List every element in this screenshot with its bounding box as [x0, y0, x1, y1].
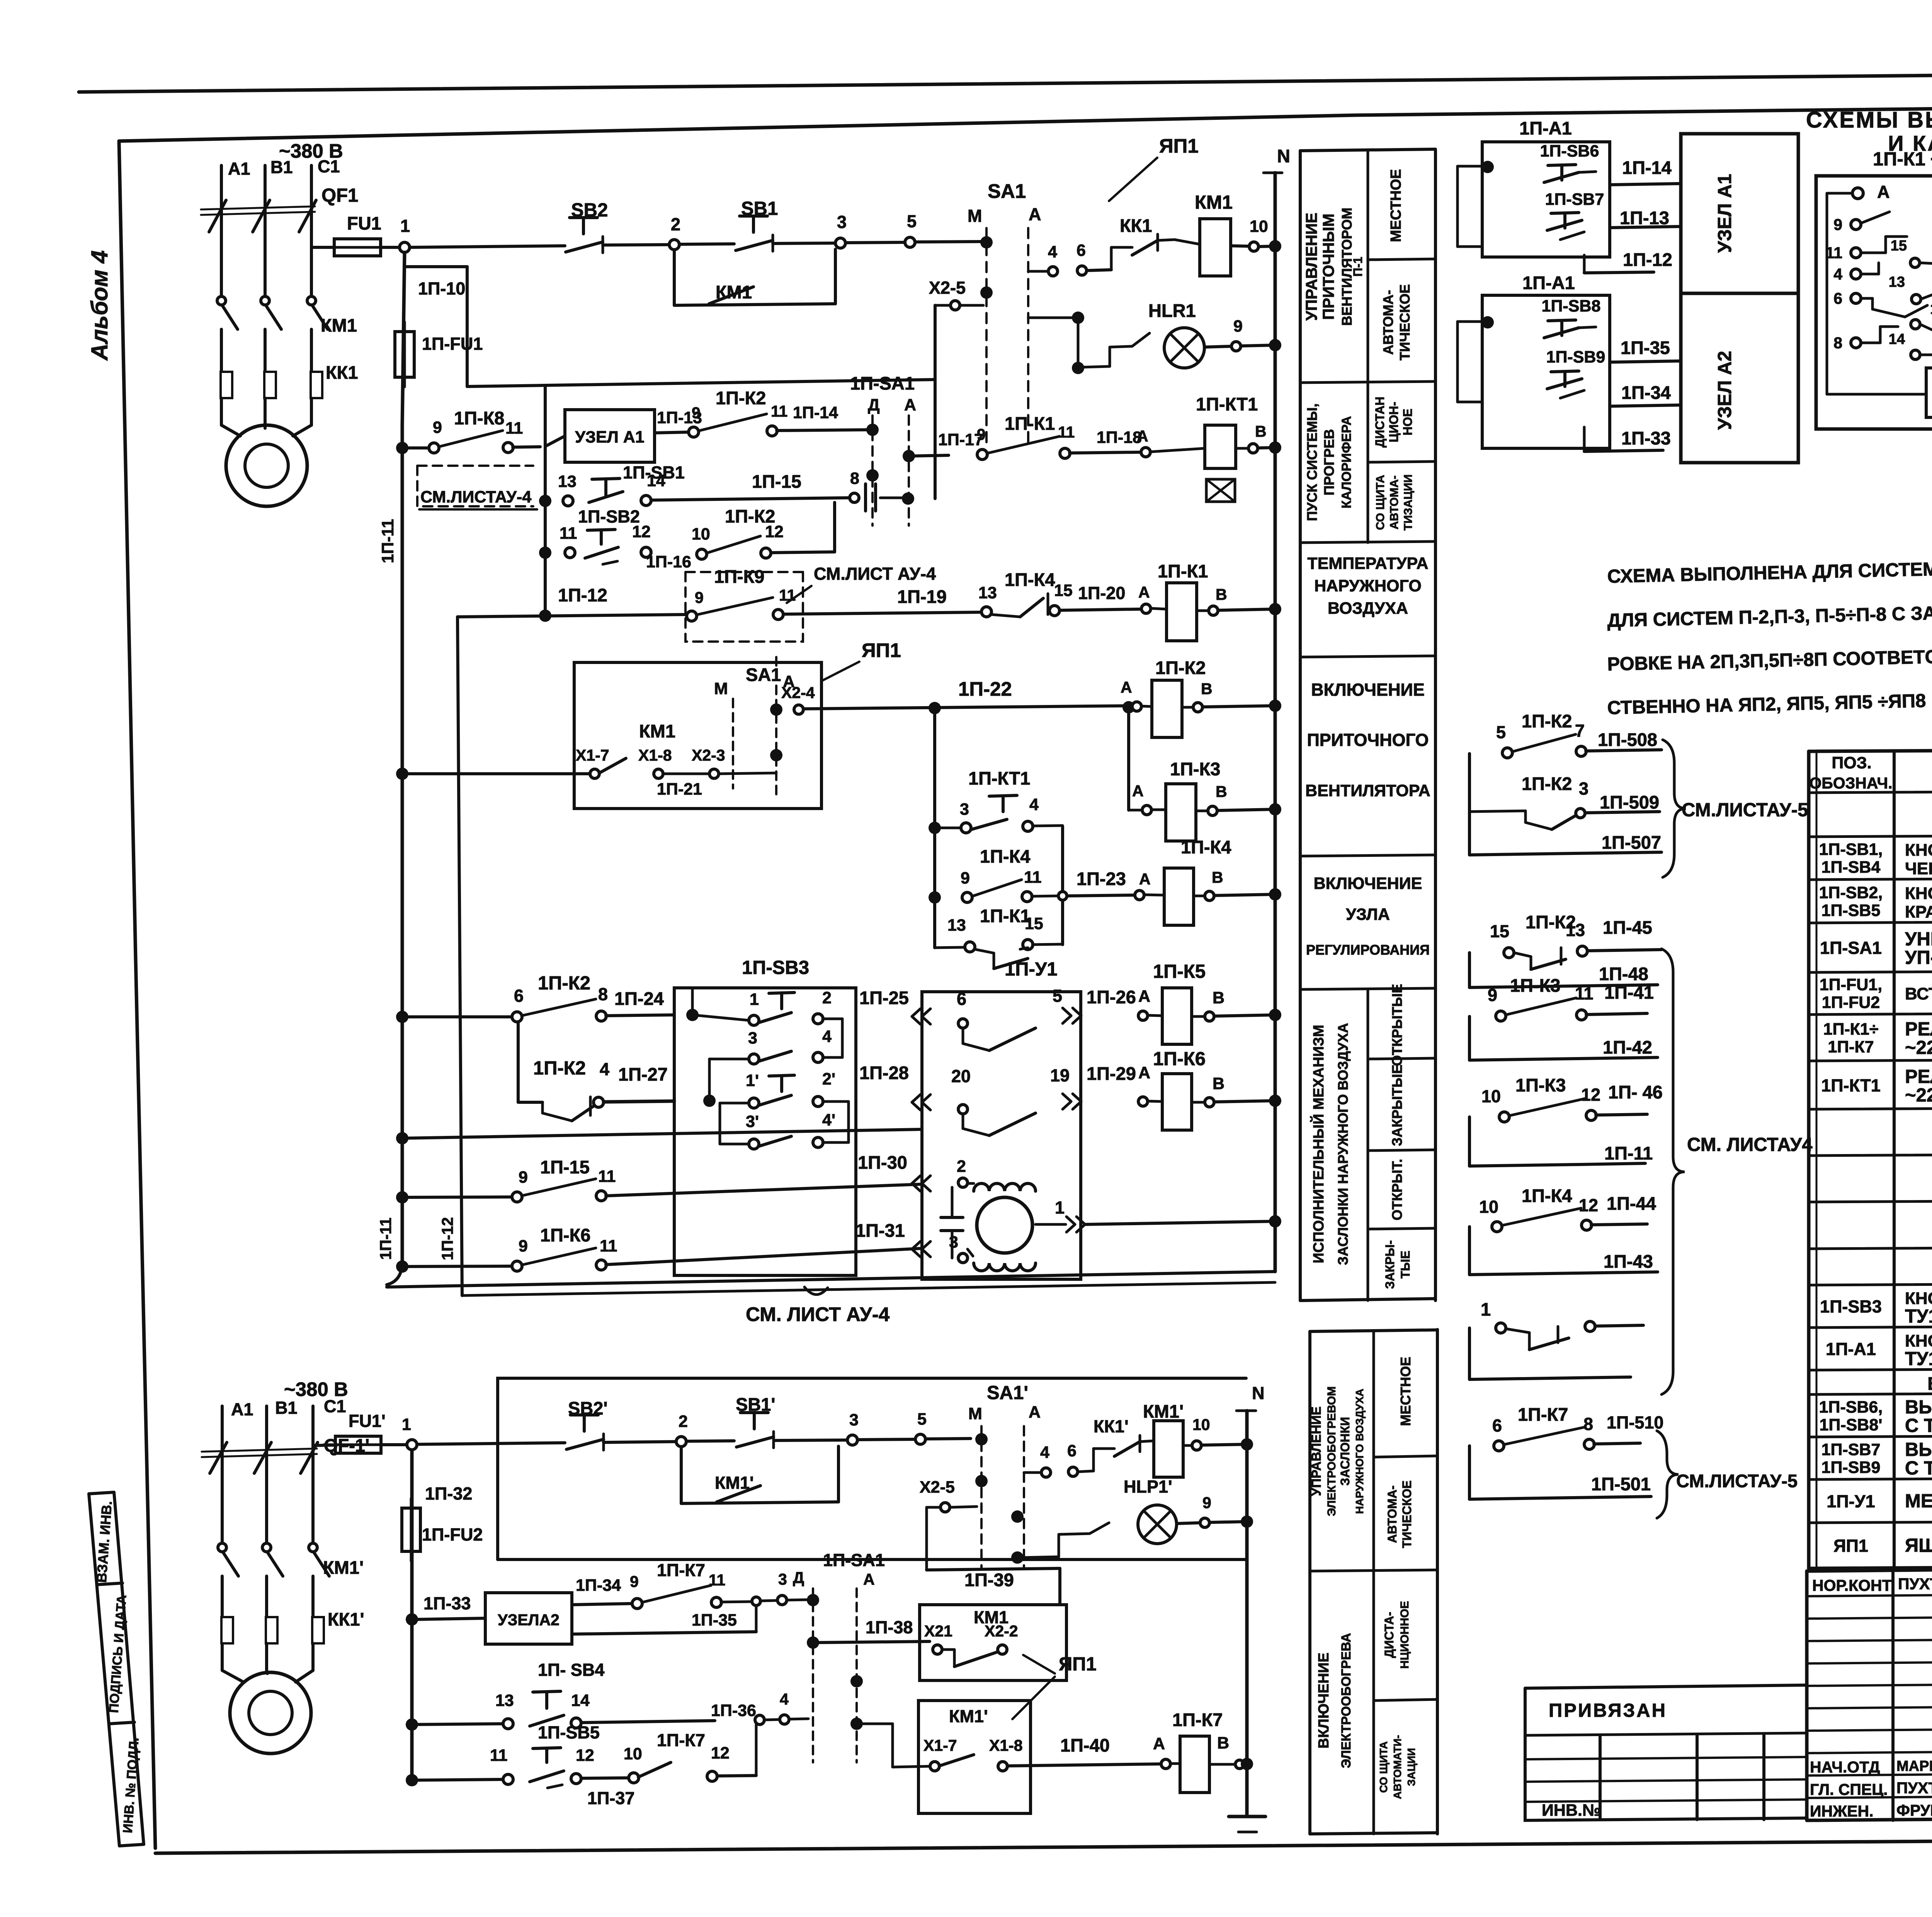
- phase leads: [220, 165, 223, 298]
- svg-text:FU1: FU1: [347, 213, 381, 233]
- svg-text:1П-К7: 1П-К7: [1172, 1709, 1223, 1730]
- svg-text:10: 10: [1481, 1086, 1501, 1106]
- svg-text:6: 6: [957, 989, 966, 1009]
- svg-text:УПРАВЛЕНИЕ: УПРАВЛЕНИЕ: [1309, 1406, 1324, 1496]
- svg-text:ОТКРЫТЫЕ: ОТКРЫТЫЕ: [1389, 984, 1405, 1066]
- inductor winding top: [974, 1183, 1036, 1191]
- svg-text:1П-33: 1П-33: [423, 1594, 471, 1613]
- svg-text:РОВКЕ НА 2П,3П,5П÷8П СООТВЕТСТ: РОВКЕ НА 2П,3П,5П÷8П СООТВЕТСТВЕННО, А Т…: [1607, 639, 1932, 675]
- svg-text:А: А: [1877, 182, 1890, 202]
- contact 1P-KT1 NO row: [929, 822, 941, 834]
- privyazan box bottom-left: [1525, 1688, 1807, 1820]
- svg-text:1П-SВ6: 1П-SВ6: [1540, 142, 1599, 160]
- svg-text:УНИВЕРСАЛЬНЫЙ ПЕРЕКЛЮЧАТЕЛЬ: УНИВЕРСАЛЬНЫЙ ПЕРЕКЛЮЧАТЕЛЬ: [1905, 928, 1932, 950]
- row KT1 coil: wire 1P-17: [909, 455, 949, 456]
- svg-text:АВТОМАТИ-: АВТОМАТИ-: [1391, 1735, 1403, 1799]
- terminal bars: [864, 484, 867, 511]
- svg-text:12: 12: [632, 523, 651, 541]
- svg-text:1П-27: 1П-27: [618, 1064, 668, 1084]
- svg-text:КМ1: КМ1: [1195, 192, 1233, 213]
- svg-text:ВЫКЛЮЧАТЕЛЬ КНОПОЧНЫЙ ТИПА: ВЫКЛЮЧАТЕЛЬ КНОПОЧНЫЙ ТИПА КЕ-011: [1905, 1439, 1932, 1460]
- breaker QF-1': [202, 1449, 317, 1452]
- svg-text:X1-8: X1-8: [989, 1737, 1023, 1754]
- svg-text:4': 4': [822, 1111, 835, 1129]
- svg-text:КНОПОЧНЫЙ ПОСТ УПРАВЛЕНИЯ ПК: КНОПОЧНЫЙ ПОСТ УПРАВЛЕНИЯ ПКЕ-212-2УЗ: [1905, 1288, 1932, 1308]
- svg-text:1: 1: [402, 1415, 411, 1434]
- box KM1 with X21 X2-2: [920, 1605, 1066, 1680]
- parts list table frame: [1809, 747, 1932, 751]
- svg-text:1П-43: 1П-43: [1604, 1251, 1653, 1272]
- svg-text:X1-7: X1-7: [576, 746, 609, 764]
- svg-text:1П-КТ1: 1П-КТ1: [1196, 394, 1258, 414]
- svg-text:1П-26: 1П-26: [1087, 987, 1136, 1007]
- svg-text:9: 9: [1202, 1494, 1211, 1512]
- svg-text:11: 11: [505, 419, 523, 438]
- svg-text:УПРАВЛЕНИЕ: УПРАВЛЕНИЕ: [1303, 213, 1320, 320]
- svg-text:X2-5: X2-5: [929, 278, 966, 298]
- svg-text:А1: А1: [231, 1399, 253, 1419]
- wire 1P-507: [1575, 852, 1662, 853]
- wire 1P-38 row: [857, 1642, 889, 1643]
- svg-text:С1: С1: [318, 157, 340, 176]
- svg-text:14: 14: [571, 1691, 590, 1710]
- svg-text:1П-15: 1П-15: [540, 1157, 590, 1177]
- svg-text:1П-16: 1П-16: [646, 553, 691, 571]
- svg-text:С ТОЛКАТЕЛЕМ КРАСНОГО ЦВЕТА: С ТОЛКАТЕЛЕМ КРАСНОГО ЦВЕТА, исп. 3: [1905, 1458, 1932, 1479]
- wire 1P-18: [1070, 452, 1140, 453]
- inductor winding bottom: [974, 1263, 1036, 1271]
- wire to SB1: [679, 244, 734, 244]
- svg-text:1П-К3: 1П-К3: [1510, 975, 1560, 996]
- KM1 holding contact branch: [673, 250, 676, 305]
- svg-text:НАЧ.ОТД: НАЧ.ОТД: [1810, 1758, 1880, 1776]
- svg-text:1П-К2: 1П-К2: [1155, 657, 1206, 678]
- svg-text:1П-К2: 1П-К2: [716, 388, 766, 408]
- svg-text:1П-К7: 1П-К7: [657, 1730, 705, 1750]
- svg-text:1П-35: 1П-35: [692, 1611, 737, 1629]
- wire 1P-48: [1578, 985, 1658, 986]
- svg-text:1П-507: 1П-507: [1602, 832, 1661, 853]
- svg-text:УЗЕЛ А1: УЗЕЛ А1: [575, 428, 644, 446]
- svg-text:13: 13: [1889, 274, 1905, 290]
- svg-text:4: 4: [1833, 265, 1842, 283]
- row 1P-K6 left: [396, 1260, 408, 1273]
- svg-text:УП-5312 С86 ТУ16-524.074-: УП-5312 С86 ТУ16-524.074-75: [1905, 947, 1932, 968]
- svg-text:СХЕМЫ ВЫВОДОВ КОНТАКТОВ: СХЕМЫ ВЫВОДОВ КОНТАКТОВ: [1806, 107, 1932, 133]
- svg-text:9: 9: [519, 1168, 528, 1187]
- svg-text:1П-У1: 1П-У1: [1005, 959, 1058, 980]
- svg-text:1П-К4: 1П-К4: [980, 846, 1030, 867]
- svg-text:ПУХТЕЛЬ: ПУХТЕЛЬ: [1898, 1575, 1932, 1593]
- svg-text:1П-34: 1П-34: [1621, 382, 1671, 403]
- start button SB1': [686, 1441, 734, 1441]
- svg-text:КРАСНОГО ЦВЕТА, НАДПИСЬ,, СТОП: КРАСНОГО ЦВЕТА, НАДПИСЬ,, СТОП''. ТУ16-6…: [1905, 902, 1932, 921]
- svg-text:X1-7: X1-7: [923, 1737, 957, 1754]
- svg-text:ПРИТОЧНЫМ: ПРИТОЧНЫМ: [1320, 214, 1337, 320]
- svg-text:НОЕ: НОЕ: [1401, 409, 1415, 435]
- bus 1P-11 left: [402, 252, 405, 1264]
- svg-text:ВСТРАИВАЕМЫМИ АППАРАТАМИ:: ВСТРАИВАЕМЫМИ АППАРАТАМИ:: [1927, 1373, 1932, 1394]
- svg-text:4: 4: [1040, 1443, 1049, 1462]
- svg-text:SA1: SA1: [988, 180, 1026, 202]
- svg-text:1П-SВ8': 1П-SВ8': [1819, 1416, 1882, 1434]
- svg-text:1П-39: 1П-39: [964, 1570, 1014, 1590]
- svg-text:~220В ТУ16-523.331-78: ~220В ТУ16-523.331-78: [1905, 1037, 1932, 1058]
- svg-text:УЗЕЛ А1: УЗЕЛ А1: [1714, 174, 1735, 253]
- svg-text:9: 9: [1833, 216, 1842, 233]
- svg-text:X2-5: X2-5: [920, 1478, 955, 1496]
- svg-text:6: 6: [1067, 1442, 1077, 1460]
- row SB4: [406, 1718, 418, 1731]
- svg-text:ИНВ.№: ИНВ.№: [1542, 1801, 1601, 1820]
- branch 1P-32 down: [410, 1450, 414, 1780]
- svg-text:1П-30: 1П-30: [858, 1152, 907, 1173]
- svg-text:ЯП1: ЯП1: [1833, 1536, 1868, 1556]
- svg-text:11: 11: [600, 1237, 617, 1255]
- svg-text:1П-28: 1П-28: [859, 1062, 909, 1083]
- svg-text:МЕХАНИЗМ ЭЛЕКТРИЧЕСКИЙ МЭО, ~: МЕХАНИЗМ ЭЛЕКТРИЧЕСКИЙ МЭО, ~ 220 В: [1905, 1490, 1932, 1512]
- SB3 inner wiring upper: [692, 1015, 749, 1020]
- svg-text:СМ. ЛИСТ АУ-4: СМ. ЛИСТ АУ-4: [746, 1303, 890, 1325]
- svg-text:X2-3: X2-3: [692, 746, 725, 764]
- svg-text:1П-SВ4: 1П-SВ4: [1821, 858, 1881, 877]
- brace SM.LISTAU-5 no.1: [1663, 740, 1686, 877]
- svg-text:20: 20: [951, 1066, 971, 1086]
- svg-text:3: 3: [949, 1233, 958, 1251]
- svg-text:КНОПКА УПРАВЛЕНИЯ КЕ-01193 исп: КНОПКА УПРАВЛЕНИЯ КЕ-01193 исп.3 ТОЛКАТЕ…: [1905, 884, 1932, 903]
- svg-text:12: 12: [711, 1744, 730, 1762]
- terminal box UZEL A2: [1681, 293, 1798, 463]
- svg-text:1П-SВ9: 1П-SВ9: [1821, 1458, 1881, 1477]
- svg-text:1П-31: 1П-31: [855, 1220, 905, 1241]
- svg-text:ПРИВЯЗАН: ПРИВЯЗАН: [1549, 1700, 1667, 1721]
- svg-text:ЗАСЛОНКИ: ЗАСЛОНКИ: [1338, 1417, 1352, 1486]
- svg-text:N: N: [1277, 146, 1290, 166]
- svg-text:1П-К3: 1П-К3: [1170, 759, 1220, 779]
- svg-text:9: 9: [695, 589, 704, 606]
- svg-text:13: 13: [1566, 920, 1585, 940]
- svg-text:РЕЛЕ ВРЕМЕНИ РКВ-11-43-122 УХ: РЕЛЕ ВРЕМЕНИ РКВ-11-43-122 УХЛ4: [1905, 1066, 1932, 1087]
- svg-text:ВКЛЮЧЕНИЕ: ВКЛЮЧЕНИЕ: [1311, 680, 1425, 700]
- wire 1P-34 contact 1P-K7: [572, 1604, 632, 1605]
- fuse 1P-FU2: [402, 1508, 420, 1551]
- svg-text:НLР1': НLР1': [1124, 1477, 1172, 1496]
- svg-text:13: 13: [495, 1691, 514, 1710]
- brace SM.LISTAU-5 no.2: [1657, 1431, 1679, 1518]
- wire 1P-11: [1578, 1163, 1645, 1165]
- svg-text:ВЕНТИЛЯТОРА: ВЕНТИЛЯТОРА: [1305, 781, 1430, 800]
- svg-text:1П-45: 1П-45: [1603, 917, 1652, 938]
- svg-text:1П-42: 1П-42: [1603, 1037, 1652, 1057]
- left pin group: [1851, 220, 1861, 230]
- svg-text:5: 5: [1496, 722, 1506, 742]
- svg-text:М: М: [968, 1405, 982, 1423]
- svg-text:1П-SВ5: 1П-SВ5: [1821, 901, 1881, 920]
- svg-text:9: 9: [519, 1237, 528, 1255]
- box1 left hooks: [1458, 165, 1482, 168]
- svg-text:УЗЛА: УЗЛА: [1346, 905, 1390, 924]
- brace SM.LISTAU4: [1662, 949, 1685, 1394]
- row 1P-K8: junction: [396, 442, 408, 454]
- thermal KK1': [221, 1617, 233, 1643]
- wire 1P-40: [1007, 1764, 1161, 1766]
- svg-text:1П-36: 1П-36: [711, 1701, 756, 1720]
- svg-text:СО ЩИТА: СО ЩИТА: [1374, 475, 1387, 530]
- svg-text:1П-SВ9: 1П-SВ9: [1546, 348, 1605, 366]
- svg-text:1П-А1: 1П-А1: [1826, 1339, 1876, 1359]
- contactor KM1' contacts: [218, 1543, 226, 1552]
- svg-text:1П-К6: 1П-К6: [540, 1225, 590, 1245]
- svg-text:ОТКРЫТ.: ОТКРЫТ.: [1389, 1159, 1405, 1220]
- svg-text:1П-SB2: 1П-SB2: [578, 507, 640, 526]
- frame left border: [119, 141, 155, 1848]
- svg-text:10: 10: [1250, 217, 1268, 236]
- svg-text:ЭЛЕКТРООБОГРЕВОМ: ЭЛЕКТРООБОГРЕВОМ: [1325, 1386, 1338, 1516]
- svg-text:ВЫКЛЮЧАТЕЛЬ КНОПОЧНЫЙ ТИПА К: ВЫКЛЮЧАТЕЛЬ КНОПОЧНЫЙ ТИПА КЕ-011: [1905, 1396, 1932, 1418]
- wire 1P-14: [777, 430, 867, 431]
- function strip upper frame: [1299, 151, 1302, 1301]
- svg-text:1П-22: 1П-22: [958, 678, 1012, 700]
- svg-text:1П-SВ7: 1П-SВ7: [1545, 190, 1604, 209]
- svg-text:ЗАЦИИ: ЗАЦИИ: [1405, 1748, 1417, 1786]
- svg-text:СТВЕННО НА ЯП2, ЯП5, ЯП5 ÷ЯП8: СТВЕННО НА ЯП2, ЯП5, ЯП5 ÷ЯП8: [1607, 690, 1926, 718]
- svg-text:1': 1': [746, 1071, 759, 1090]
- bus 1P-12 vertical: [457, 617, 462, 1296]
- svg-text:3: 3: [748, 1029, 757, 1047]
- svg-text:В: В: [1213, 1074, 1225, 1093]
- wire to node 2: [603, 245, 669, 245]
- svg-text:1П-SВ7: 1П-SВ7: [1821, 1440, 1881, 1459]
- svg-text:1П-SВ2,: 1П-SВ2,: [1819, 884, 1883, 902]
- sub-network vertical left: [933, 708, 936, 948]
- svg-text:8: 8: [598, 984, 608, 1004]
- svg-text:1П-У1: 1П-У1: [1827, 1491, 1875, 1511]
- svg-text:ЯЩИК УПРАВЛЕНИЯ: ЯЩИК УПРАВЛЕНИЯ: [1905, 1535, 1932, 1556]
- svg-text:1П-А1: 1П-А1: [1522, 272, 1575, 293]
- svg-text:ВЗАМ. ИНВ.: ВЗАМ. ИНВ.: [94, 1500, 115, 1583]
- svg-text:АВТОМА-: АВТОМА-: [1380, 290, 1396, 355]
- svg-text:1П-12: 1П-12: [558, 585, 607, 605]
- KK1 aux contact: [1083, 366, 1110, 367]
- svg-text:11: 11: [560, 524, 577, 543]
- pinout box K1-K7: [1816, 176, 1932, 429]
- svg-text:X2-4: X2-4: [781, 684, 815, 701]
- svg-text:15: 15: [1891, 238, 1907, 254]
- svg-text:N: N: [1252, 1383, 1265, 1403]
- svg-text:А: А: [863, 1570, 875, 1588]
- svg-text:1П-КТ1: 1П-КТ1: [1821, 1076, 1880, 1095]
- row 1P-12 wire: [457, 615, 685, 617]
- svg-text:ДИСТАН: ДИСТАН: [1373, 397, 1387, 448]
- motor M1: [226, 425, 307, 506]
- svg-text:РЕГУЛИРОВАНИЯ: РЕГУЛИРОВАНИЯ: [1306, 942, 1430, 958]
- wire 1P-23: [1067, 895, 1134, 896]
- svg-text:1П-33: 1П-33: [1621, 428, 1671, 448]
- lamp circuit dots: [1072, 312, 1084, 324]
- svg-text:3: 3: [837, 212, 847, 232]
- svg-text:ЗАСЛОНКИ НАРУЖНОГО ВОЗДУХА: ЗАСЛОНКИ НАРУЖНОГО ВОЗДУХА: [1335, 1023, 1351, 1265]
- svg-text:5: 5: [907, 211, 917, 231]
- svg-text:А: А: [1029, 1403, 1041, 1422]
- svg-text:2: 2: [679, 1412, 688, 1431]
- svg-text:ЧЕРНОГО ЦВЕТА, НАДПИСЬ,,ПУСК'': ЧЕРНОГО ЦВЕТА, НАДПИСЬ,,ПУСК''. ТУ16-642…: [1905, 859, 1932, 878]
- svg-text:1: 1: [750, 990, 759, 1009]
- svg-text:1П-40: 1П-40: [1060, 1735, 1110, 1755]
- svg-text:1П-К4: 1П-К4: [1181, 837, 1231, 857]
- svg-text:ПРИТОЧНОГО: ПРИТОЧНОГО: [1307, 730, 1429, 750]
- svg-text:КНОПОЧНЫЙ ПОСТ УПРАВЛЕНИЯ ПК: КНОПОЧНЫЙ ПОСТ УПРАВЛЕНИЯ ПКУ15-21.331-5…: [1905, 1331, 1932, 1350]
- enclosure box lower: [498, 1378, 1246, 1559]
- KK1' aux and lamp: [1022, 1557, 1059, 1558]
- page top border: [79, 70, 1932, 92]
- motor M1': [230, 1672, 311, 1754]
- svg-text:~220В ТУ16-647.036-86: ~220В ТУ16-647.036-86: [1905, 1085, 1932, 1106]
- svg-text:1П-К8: 1П-К8: [454, 408, 504, 428]
- terminal box UZEL A1: [1681, 134, 1798, 293]
- node 1: [381, 246, 400, 249]
- svg-text:1П-FU1,: 1П-FU1,: [1820, 976, 1882, 994]
- svg-text:10: 10: [692, 525, 710, 543]
- group 1P-41/42 loop: [1468, 1016, 1471, 1060]
- svg-text:8: 8: [1583, 1414, 1593, 1434]
- svg-text:SB2: SB2: [571, 200, 608, 221]
- svg-text:1П-23: 1П-23: [1077, 868, 1126, 889]
- middle pin group: [1910, 258, 1920, 267]
- svg-text:1П-К7: 1П-К7: [657, 1560, 705, 1580]
- svg-text:КМ1': КМ1': [1143, 1401, 1184, 1422]
- svg-text:1П-13: 1П-13: [1620, 208, 1669, 228]
- svg-text:19: 19: [1050, 1066, 1070, 1085]
- svg-text:УЗЕЛ А2: УЗЕЛ А2: [1714, 351, 1735, 430]
- svg-text:11: 11: [1826, 244, 1842, 262]
- fuse FU1': [313, 1445, 335, 1445]
- svg-text:1П-К1: 1П-К1: [1005, 413, 1055, 434]
- svg-text:2: 2: [671, 215, 680, 234]
- svg-text:1П-К4: 1П-К4: [1005, 569, 1055, 590]
- svg-text:ЗАКРЫ-: ЗАКРЫ-: [1383, 1240, 1397, 1289]
- svg-text:КК1': КК1': [328, 1609, 364, 1629]
- svg-text:ГЛ. СПЕЦ.: ГЛ. СПЕЦ.: [1810, 1781, 1888, 1798]
- svg-text:1П- 46: 1П- 46: [1608, 1082, 1663, 1102]
- svg-text:РЕЛЕ ПРОМЕЖУТОЧНОЕ РПУ-2М-0622: РЕЛЕ ПРОМЕЖУТОЧНОЕ РПУ-2М-06222 УЗА: [1905, 1019, 1932, 1040]
- svg-text:8: 8: [850, 469, 859, 488]
- left stamp column boxes: [89, 1494, 119, 1846]
- row 1P-15 left: [396, 1191, 408, 1204]
- svg-text:ТУ16-642.006-83: ТУ16-642.006-83: [1905, 1306, 1932, 1327]
- svg-text:ТИЗАЦИИ: ТИЗАЦИИ: [1402, 474, 1415, 530]
- svg-text:1П-34: 1П-34: [576, 1576, 621, 1595]
- svg-text:В: В: [1201, 680, 1213, 698]
- circuit breaker QF1: [201, 206, 315, 209]
- svg-text:10: 10: [624, 1745, 642, 1763]
- svg-text:6: 6: [1077, 241, 1086, 260]
- sub-network vertical right: [1061, 826, 1064, 945]
- svg-text:6: 6: [1833, 289, 1842, 307]
- svg-text:МЕСТНОЕ: МЕСТНОЕ: [1398, 1357, 1413, 1426]
- svg-text:12: 12: [765, 523, 784, 541]
- svg-text:1П-SА1: 1П-SА1: [1820, 938, 1882, 958]
- svg-text:СМ. ЛИСТАУ4: СМ. ЛИСТАУ4: [1687, 1134, 1813, 1155]
- svg-text:ЯП1: ЯП1: [1059, 1654, 1097, 1675]
- wires 1P-35 34 33: [1610, 361, 1681, 362]
- svg-text:НЦИОННОЕ: НЦИОННОЕ: [1398, 1601, 1411, 1668]
- svg-text:4: 4: [822, 1027, 832, 1046]
- svg-text:АВТОМА-: АВТОМА-: [1388, 475, 1401, 529]
- svg-text:ТЫЕ: ТЫЕ: [1398, 1251, 1412, 1279]
- dashed ref box SM.LIST AU-4: [417, 466, 533, 506]
- svg-text:1П-К2: 1П-К2: [1522, 711, 1572, 731]
- svg-text:СО ЩИТА: СО ЩИТА: [1378, 1741, 1389, 1793]
- svg-text:1П-24: 1П-24: [614, 988, 664, 1009]
- svg-text:ТЕМПЕРАТУРА: ТЕМПЕРАТУРА: [1307, 554, 1428, 573]
- row 1P-24: [396, 1011, 408, 1023]
- KM1' holding branch: [680, 1447, 683, 1503]
- svg-text:13: 13: [978, 584, 997, 602]
- svg-text:3: 3: [778, 1570, 787, 1588]
- stop button SB2: [570, 216, 597, 219]
- svg-text:ДЛЯ СИСТЕМ П-2,П-3, П-5÷П-8 С: ДЛЯ СИСТЕМ П-2,П-3, П-5÷П-8 С ЗАМЕНОЙ ИН…: [1607, 596, 1932, 631]
- svg-text:1П-509: 1П-509: [1600, 792, 1659, 812]
- wire node3 node5: [773, 243, 835, 243]
- svg-text:1П-А1: 1П-А1: [1519, 118, 1572, 138]
- svg-text:A1: A1: [228, 159, 250, 179]
- svg-text:М: М: [714, 679, 728, 698]
- svg-text:1П-К1 ÷ 1П-К7: 1П-К1 ÷ 1П-К7: [1873, 149, 1932, 170]
- svg-text:1П-FU2: 1П-FU2: [1822, 993, 1880, 1012]
- svg-text:9: 9: [1233, 317, 1243, 335]
- svg-text:1П-SВ1,: 1П-SВ1,: [1819, 840, 1883, 859]
- frame top border: [119, 102, 1932, 141]
- svg-text:А: А: [1139, 870, 1151, 888]
- svg-text:3: 3: [960, 800, 969, 819]
- svg-text:КК1: КК1: [1120, 215, 1152, 236]
- svg-text:А: А: [1132, 782, 1144, 800]
- svg-text:ЯП1: ЯП1: [862, 639, 901, 661]
- svg-text:5: 5: [1053, 986, 1062, 1006]
- svg-text:КК1': КК1': [1094, 1416, 1129, 1436]
- row UZEL A2: [406, 1613, 418, 1626]
- svg-text:4: 4: [1029, 795, 1039, 814]
- group 1P-45/48 loop: [1468, 953, 1471, 987]
- svg-text:4: 4: [1048, 243, 1057, 261]
- svg-text:2: 2: [957, 1157, 966, 1176]
- svg-text:1П-SA1: 1П-SA1: [850, 373, 915, 393]
- svg-text:СМ.ЛИСТАУ-5: СМ.ЛИСТАУ-5: [1682, 800, 1808, 821]
- start button SB1: [740, 215, 767, 218]
- svg-text:КМ1: КМ1: [321, 315, 357, 335]
- svg-text:1П-К3: 1П-К3: [1515, 1075, 1566, 1095]
- svg-text:12: 12: [576, 1746, 594, 1765]
- svg-text:1П-14: 1П-14: [1622, 157, 1672, 178]
- svg-text:1П-19: 1П-19: [897, 586, 947, 607]
- svg-text:SB1: SB1: [741, 198, 778, 219]
- box UZEL A1: [565, 410, 655, 462]
- svg-text:ВКЛЮЧЕНИЕ: ВКЛЮЧЕНИЕ: [1314, 874, 1422, 893]
- svg-text:10: 10: [1192, 1416, 1210, 1433]
- svg-text:8: 8: [1833, 334, 1842, 352]
- svg-text:16: 16: [1930, 301, 1932, 317]
- svg-text:А: А: [1138, 1064, 1150, 1082]
- svg-text:4: 4: [780, 1690, 789, 1708]
- svg-text:1П-К5: 1П-К5: [1153, 961, 1206, 982]
- row SB5: [406, 1774, 418, 1786]
- svg-text:ТИЧЕСКОЕ: ТИЧЕСКОЕ: [1400, 1480, 1414, 1548]
- svg-text:1П-37: 1П-37: [587, 1788, 634, 1808]
- svg-text:1П-SВ3: 1П-SВ3: [1820, 1297, 1882, 1316]
- stop button SB2': [570, 1413, 598, 1416]
- svg-text:М: М: [968, 206, 982, 226]
- svg-text:ПУХТЕЛЬ: ПУХТЕЛЬ: [1896, 1779, 1932, 1797]
